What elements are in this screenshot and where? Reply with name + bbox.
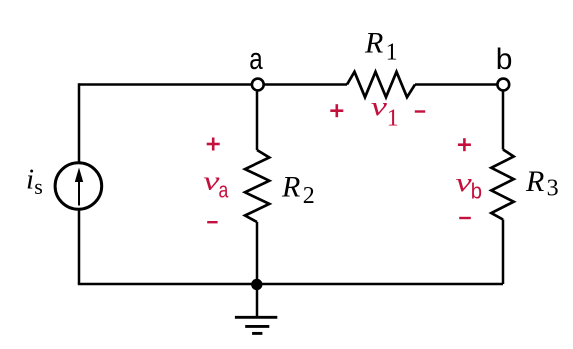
resistor R3 (zigzag) <box>491 150 513 220</box>
current source is (circle) <box>55 163 102 210</box>
node b (open terminal) <box>497 79 509 91</box>
wire bottom rail <box>78 283 503 286</box>
label v1 <box>371 92 399 132</box>
svg-text:i: i <box>26 163 34 195</box>
svg-text:1: 1 <box>386 39 398 65</box>
wire R2 branch bottom <box>256 222 259 284</box>
label R3 <box>525 165 559 202</box>
resistor R1 (zigzag) <box>347 72 415 97</box>
label v1 minus <box>415 110 425 112</box>
resistor R2 (zigzag) <box>245 150 269 222</box>
wire left rail vertical <box>78 83 81 284</box>
wire R3 branch top <box>502 85 505 150</box>
svg-text:R: R <box>525 165 544 198</box>
label R1 <box>364 27 398 66</box>
wire R2 branch top <box>256 85 259 151</box>
svg-text:R: R <box>364 27 383 60</box>
current source arrow <box>75 168 83 206</box>
node a (open terminal) <box>252 79 264 91</box>
svg-text:a: a <box>249 41 263 76</box>
wire R1 to node b <box>415 83 503 86</box>
svg-text:v: v <box>371 92 388 121</box>
label vb minus <box>459 217 471 219</box>
svg-text:3: 3 <box>547 176 559 202</box>
svg-text:b: b <box>496 43 513 76</box>
label va minus <box>207 221 217 223</box>
svg-text:s: s <box>34 174 43 199</box>
junction dot (ground node) <box>251 279 262 290</box>
label vb <box>456 168 483 204</box>
svg-text:a: a <box>219 179 230 203</box>
svg-text:1: 1 <box>387 105 399 131</box>
label vb plus <box>458 138 471 151</box>
label is (source current) <box>26 163 43 198</box>
svg-text:2: 2 <box>303 183 315 209</box>
svg-text:b: b <box>471 180 482 204</box>
wire top (left rail to node a to R1 to node b) <box>79 83 347 86</box>
ground <box>235 285 277 334</box>
svg-text:R: R <box>281 170 300 203</box>
label va <box>203 166 229 203</box>
label va plus <box>207 138 220 151</box>
label v1 plus <box>330 104 343 117</box>
label R2 <box>281 170 315 209</box>
wire R3 branch bottom <box>502 220 505 285</box>
